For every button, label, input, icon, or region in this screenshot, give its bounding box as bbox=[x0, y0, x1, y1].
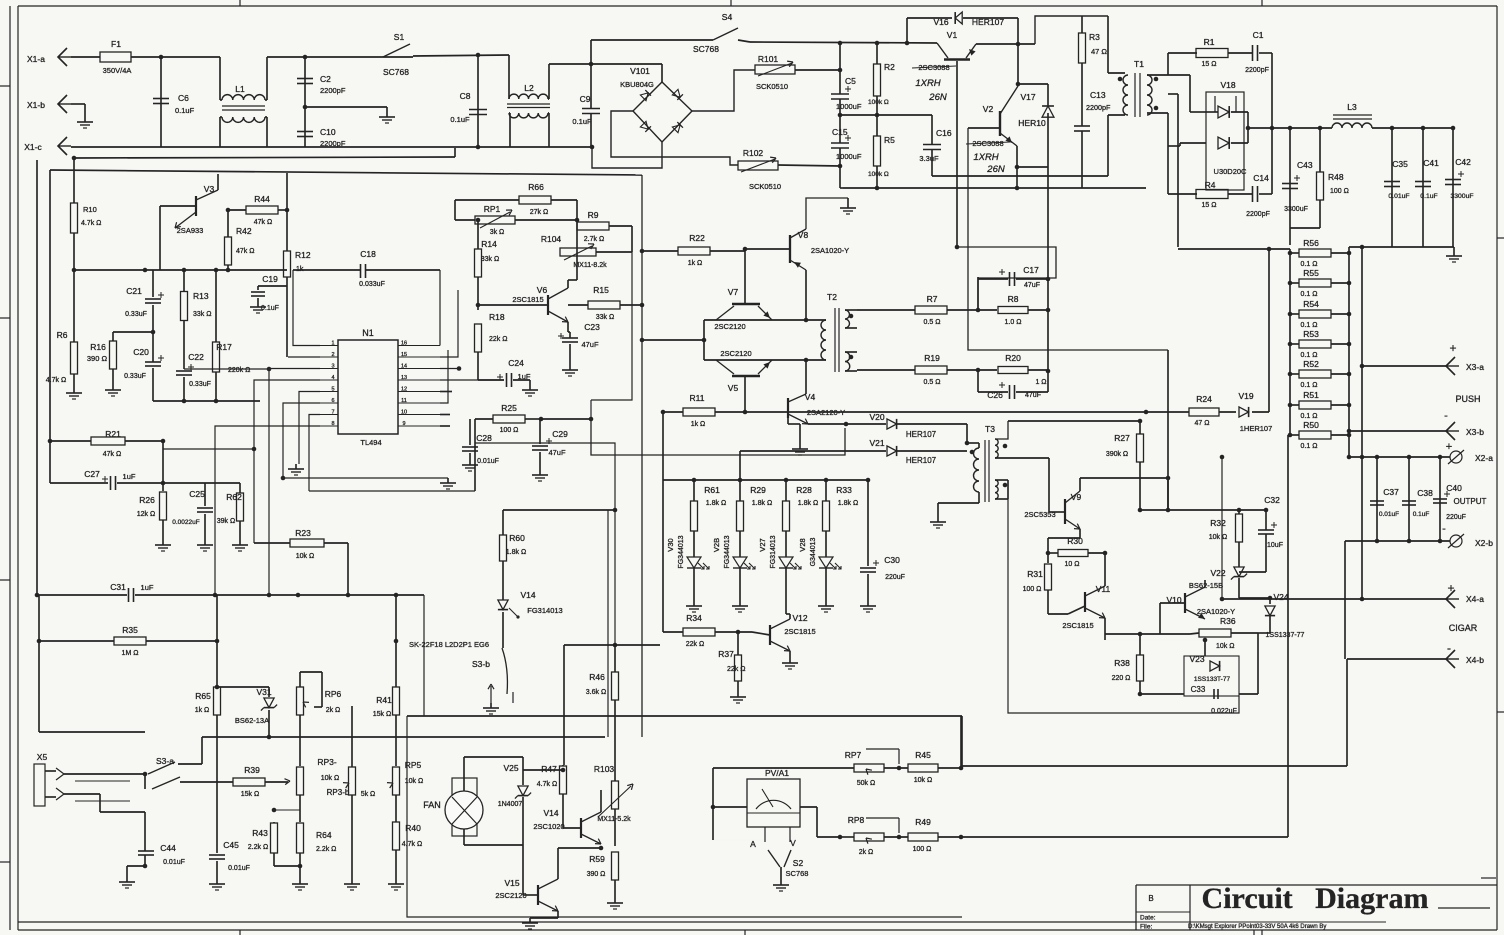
svg-text:C22: C22 bbox=[188, 352, 204, 362]
svg-text:V7: V7 bbox=[728, 287, 739, 297]
svg-text:7: 7 bbox=[331, 410, 334, 416]
svg-text:12: 12 bbox=[401, 387, 407, 393]
svg-text:D:\KMsgt Explorer PPoint03-33V: D:\KMsgt Explorer PPoint03-33V 50A 4k6 D… bbox=[1188, 924, 1326, 930]
svg-text:C24: C24 bbox=[508, 358, 524, 368]
svg-text:+: + bbox=[1446, 441, 1452, 453]
svg-text:2200pF: 2200pF bbox=[1086, 103, 1111, 112]
svg-text:1.8k Ω: 1.8k Ω bbox=[706, 500, 726, 507]
svg-text:V14: V14 bbox=[543, 808, 558, 818]
svg-text:2SC5353: 2SC5353 bbox=[1024, 510, 1055, 519]
svg-text:A: A bbox=[750, 839, 756, 849]
svg-text:V24: V24 bbox=[1273, 592, 1288, 602]
svg-text:C21: C21 bbox=[126, 286, 142, 296]
svg-text:10k Ω: 10k Ω bbox=[296, 553, 314, 560]
svg-text:R46: R46 bbox=[589, 672, 605, 682]
svg-text:0.01uF: 0.01uF bbox=[228, 865, 250, 872]
svg-text:220k Ω: 220k Ω bbox=[228, 367, 250, 374]
svg-text:47k Ω: 47k Ω bbox=[254, 219, 272, 226]
svg-text:OUTPUT: OUTPUT bbox=[1454, 497, 1487, 506]
svg-text:R16: R16 bbox=[90, 342, 106, 352]
svg-text:220uF: 220uF bbox=[1446, 514, 1466, 521]
svg-text:PUSH: PUSH bbox=[1455, 394, 1480, 404]
svg-text:47 Ω: 47 Ω bbox=[1091, 47, 1107, 56]
svg-text:R10: R10 bbox=[83, 205, 97, 214]
svg-text:2SA933: 2SA933 bbox=[177, 226, 204, 235]
svg-text:1 Ω: 1 Ω bbox=[1035, 379, 1046, 386]
svg-text:0.01uF: 0.01uF bbox=[477, 458, 499, 465]
svg-text:1XRH: 1XRH bbox=[973, 152, 998, 163]
svg-text:4.7k Ω: 4.7k Ω bbox=[537, 781, 557, 788]
svg-text:R25: R25 bbox=[501, 403, 517, 413]
svg-text:15: 15 bbox=[401, 352, 407, 358]
svg-text:V101: V101 bbox=[630, 66, 650, 76]
svg-text:RP3-: RP3- bbox=[317, 757, 337, 767]
svg-text:C23: C23 bbox=[584, 322, 600, 332]
svg-text:3k Ω: 3k Ω bbox=[490, 229, 505, 236]
svg-text:22k Ω: 22k Ω bbox=[489, 336, 507, 343]
svg-text:V23: V23 bbox=[1189, 654, 1204, 664]
svg-text:1.8k Ω: 1.8k Ω bbox=[752, 500, 772, 507]
svg-text:16: 16 bbox=[401, 341, 407, 347]
svg-text:R51: R51 bbox=[1303, 390, 1319, 400]
svg-text:47uF: 47uF bbox=[581, 340, 599, 349]
svg-text:1SS1337-77: 1SS1337-77 bbox=[1266, 632, 1305, 639]
svg-text:R61: R61 bbox=[704, 485, 720, 495]
svg-text:F1: F1 bbox=[111, 39, 121, 49]
svg-text:R28: R28 bbox=[796, 485, 812, 495]
svg-text:FG344013: FG344013 bbox=[724, 535, 731, 568]
svg-text:BS62-15B: BS62-15B bbox=[1189, 581, 1223, 590]
svg-text:3.3uF: 3.3uF bbox=[919, 154, 939, 163]
svg-text:27k Ω: 27k Ω bbox=[530, 209, 548, 216]
svg-text:1.8k Ω: 1.8k Ω bbox=[798, 500, 818, 507]
svg-text:R26: R26 bbox=[139, 495, 155, 505]
svg-text:V27: V27 bbox=[758, 538, 767, 551]
svg-text:R22: R22 bbox=[689, 233, 705, 243]
svg-text:0.01uF: 0.01uF bbox=[1388, 193, 1409, 200]
svg-text:220uF: 220uF bbox=[885, 574, 905, 581]
svg-text:C30: C30 bbox=[884, 555, 900, 565]
svg-text:L1: L1 bbox=[235, 84, 245, 94]
svg-text:R56: R56 bbox=[1303, 238, 1319, 248]
svg-text:R104: R104 bbox=[541, 234, 562, 244]
svg-text:5: 5 bbox=[331, 387, 334, 393]
svg-text:R19: R19 bbox=[924, 353, 940, 363]
svg-text:X4-a: X4-a bbox=[1466, 594, 1484, 604]
svg-text:-: - bbox=[1442, 523, 1446, 535]
svg-text:-: - bbox=[1444, 410, 1448, 422]
svg-text:2200pF: 2200pF bbox=[320, 86, 346, 95]
svg-text:R33: R33 bbox=[836, 485, 852, 495]
svg-text:2200pF: 2200pF bbox=[1245, 67, 1269, 74]
svg-text:R65: R65 bbox=[195, 691, 211, 701]
svg-text:S4: S4 bbox=[722, 12, 733, 22]
svg-text:T2: T2 bbox=[827, 292, 837, 302]
svg-text:SC768: SC768 bbox=[383, 67, 409, 77]
svg-text:C8: C8 bbox=[460, 91, 471, 101]
svg-text:4.7k Ω: 4.7k Ω bbox=[46, 377, 66, 384]
svg-text:+: + bbox=[1449, 341, 1456, 355]
svg-text:SC768: SC768 bbox=[693, 44, 719, 54]
svg-text:R41: R41 bbox=[376, 695, 392, 705]
svg-text:R103: R103 bbox=[594, 764, 615, 774]
svg-text:R47: R47 bbox=[541, 764, 557, 774]
svg-text:C43: C43 bbox=[1297, 160, 1313, 170]
svg-text:10k Ω: 10k Ω bbox=[321, 775, 339, 782]
svg-text:33k Ω: 33k Ω bbox=[481, 256, 499, 263]
svg-text:10: 10 bbox=[401, 410, 407, 416]
svg-text:RP6: RP6 bbox=[325, 689, 342, 699]
svg-text:100k Ω: 100k Ω bbox=[868, 99, 889, 106]
svg-text:0.1 Ω: 0.1 Ω bbox=[1301, 291, 1318, 298]
svg-text:L3: L3 bbox=[1347, 102, 1357, 112]
svg-text:0.1uF: 0.1uF bbox=[450, 115, 470, 124]
svg-text:V28: V28 bbox=[798, 538, 807, 551]
svg-text:15 Ω: 15 Ω bbox=[1202, 202, 1217, 209]
svg-text:0.1 Ω: 0.1 Ω bbox=[1301, 443, 1318, 450]
svg-text:47uF: 47uF bbox=[548, 448, 566, 457]
svg-text:15 Ω: 15 Ω bbox=[1202, 61, 1217, 68]
svg-text:V17: V17 bbox=[1020, 92, 1035, 102]
svg-text:R17: R17 bbox=[216, 342, 232, 352]
svg-text:0.33uF: 0.33uF bbox=[189, 381, 211, 388]
svg-text:2SC1020: 2SC1020 bbox=[533, 822, 564, 831]
svg-text:R66: R66 bbox=[528, 182, 544, 192]
svg-text:100 Ω: 100 Ω bbox=[1023, 586, 1042, 593]
svg-text:47uF: 47uF bbox=[1025, 392, 1041, 399]
svg-text:0.33uF: 0.33uF bbox=[125, 311, 147, 318]
svg-text:1k Ω: 1k Ω bbox=[691, 421, 706, 428]
svg-text:V8: V8 bbox=[798, 230, 809, 240]
svg-text:C1: C1 bbox=[1253, 30, 1264, 40]
svg-text:R14: R14 bbox=[481, 239, 497, 249]
svg-text:V18: V18 bbox=[1220, 80, 1235, 90]
svg-text:R45: R45 bbox=[915, 750, 931, 760]
svg-text:V15: V15 bbox=[504, 878, 519, 888]
svg-text:0.1uF: 0.1uF bbox=[572, 117, 592, 126]
svg-text:HER107: HER107 bbox=[906, 456, 937, 465]
svg-text:R27: R27 bbox=[1114, 433, 1130, 443]
svg-text:SCK0510: SCK0510 bbox=[756, 82, 788, 91]
svg-text:R36: R36 bbox=[1220, 616, 1236, 626]
svg-text:V20: V20 bbox=[869, 412, 884, 422]
svg-text:R38: R38 bbox=[1114, 658, 1130, 668]
svg-text:C40: C40 bbox=[1446, 483, 1462, 493]
svg-text:0.5 Ω: 0.5 Ω bbox=[924, 379, 941, 386]
svg-text:R44: R44 bbox=[254, 194, 270, 204]
svg-text:47 Ω: 47 Ω bbox=[1195, 420, 1210, 427]
svg-text:11: 11 bbox=[401, 398, 407, 404]
svg-text:R55: R55 bbox=[1303, 268, 1319, 278]
svg-text:C27: C27 bbox=[84, 469, 100, 479]
svg-text:C31: C31 bbox=[110, 582, 126, 592]
svg-text:C20: C20 bbox=[133, 347, 149, 357]
svg-text:X1-b: X1-b bbox=[27, 100, 45, 110]
svg-text:2SA1020-Y: 2SA1020-Y bbox=[1197, 607, 1235, 616]
svg-text:R15: R15 bbox=[593, 285, 609, 295]
svg-text:V6: V6 bbox=[537, 285, 548, 295]
svg-text:C42: C42 bbox=[1455, 157, 1471, 167]
svg-text:R7: R7 bbox=[927, 294, 938, 304]
svg-text:R101: R101 bbox=[758, 54, 779, 64]
svg-text:X1-c: X1-c bbox=[24, 142, 42, 152]
svg-text:MX11-8.2k: MX11-8.2k bbox=[573, 262, 607, 269]
svg-text:1.0 Ω: 1.0 Ω bbox=[1005, 319, 1022, 326]
svg-text:C35: C35 bbox=[1392, 159, 1408, 169]
svg-text:RP3-b: RP3-b bbox=[327, 788, 350, 797]
svg-text:C38: C38 bbox=[1417, 488, 1433, 498]
svg-text:S2: S2 bbox=[793, 858, 804, 868]
svg-text:C2: C2 bbox=[320, 74, 331, 84]
svg-text:V2: V2 bbox=[983, 104, 994, 114]
svg-text:0.022uF: 0.022uF bbox=[1211, 708, 1237, 715]
svg-text:R5: R5 bbox=[884, 135, 895, 145]
svg-text:S3-a: S3-a bbox=[156, 756, 174, 766]
svg-text:1N4007: 1N4007 bbox=[498, 801, 523, 808]
svg-text:0.033uF: 0.033uF bbox=[359, 281, 385, 288]
svg-text:C6: C6 bbox=[178, 93, 189, 103]
svg-text:C5: C5 bbox=[845, 76, 856, 86]
svg-text:33k Ω: 33k Ω bbox=[193, 311, 211, 318]
svg-text:S1: S1 bbox=[394, 32, 405, 42]
svg-text:V21: V21 bbox=[869, 438, 884, 448]
svg-text:C25: C25 bbox=[189, 489, 205, 499]
svg-text:26N: 26N bbox=[928, 92, 947, 103]
svg-text:HER10: HER10 bbox=[1018, 118, 1046, 128]
svg-text:390k Ω: 390k Ω bbox=[1106, 451, 1128, 458]
svg-text:0.1uF: 0.1uF bbox=[175, 106, 195, 115]
svg-text:FG314013: FG314013 bbox=[770, 535, 777, 568]
svg-text:R43: R43 bbox=[252, 828, 268, 838]
svg-text:C14: C14 bbox=[1253, 173, 1269, 183]
svg-text:1uF: 1uF bbox=[141, 583, 154, 592]
svg-text:0.33uF: 0.33uF bbox=[124, 373, 146, 380]
svg-text:R60: R60 bbox=[509, 533, 525, 543]
svg-text:1M Ω: 1M Ω bbox=[122, 650, 139, 657]
svg-text:1SS133T-77: 1SS133T-77 bbox=[1194, 676, 1231, 683]
svg-text:R52: R52 bbox=[1303, 359, 1319, 369]
svg-text:Date:: Date: bbox=[1140, 915, 1156, 922]
svg-text:0.1 Ω: 0.1 Ω bbox=[1301, 382, 1318, 389]
svg-text:V22: V22 bbox=[1210, 568, 1225, 578]
svg-text:B: B bbox=[1148, 894, 1153, 903]
svg-text:6: 6 bbox=[331, 398, 334, 404]
svg-text:2SA1020-Y: 2SA1020-Y bbox=[811, 246, 849, 255]
svg-text:G344013: G344013 bbox=[810, 537, 817, 566]
svg-text:22k Ω: 22k Ω bbox=[727, 666, 745, 673]
svg-text:0.1 Ω: 0.1 Ω bbox=[1301, 261, 1318, 268]
svg-text:R9: R9 bbox=[588, 210, 599, 220]
svg-text:X1-a: X1-a bbox=[27, 54, 45, 64]
svg-text:X3-b: X3-b bbox=[1466, 427, 1484, 437]
svg-text:FG344013: FG344013 bbox=[678, 535, 685, 568]
svg-text:1.8k Ω: 1.8k Ω bbox=[838, 500, 858, 507]
svg-text:1: 1 bbox=[331, 341, 334, 347]
svg-text:2k Ω: 2k Ω bbox=[326, 707, 341, 714]
svg-text:2.2k Ω: 2.2k Ω bbox=[248, 844, 268, 851]
svg-text:R54: R54 bbox=[1303, 299, 1319, 309]
svg-text:V1: V1 bbox=[947, 30, 958, 40]
svg-text:1k Ω: 1k Ω bbox=[195, 707, 210, 714]
svg-text:4.7k Ω: 4.7k Ω bbox=[81, 220, 101, 227]
svg-text:R6: R6 bbox=[57, 330, 68, 340]
svg-text:100 Ω: 100 Ω bbox=[500, 427, 519, 434]
svg-text:R20: R20 bbox=[1005, 353, 1021, 363]
svg-text:X4-b: X4-b bbox=[1466, 655, 1484, 665]
svg-text:26N: 26N bbox=[986, 164, 1005, 175]
svg-text:0.1uF: 0.1uF bbox=[261, 305, 279, 312]
svg-text:10k Ω: 10k Ω bbox=[914, 777, 932, 784]
svg-text:1.8k Ω: 1.8k Ω bbox=[506, 549, 526, 556]
svg-text:2: 2 bbox=[331, 352, 334, 358]
svg-text:V12: V12 bbox=[792, 613, 807, 623]
svg-text:RP7: RP7 bbox=[845, 750, 862, 760]
svg-text:10uF: 10uF bbox=[1267, 542, 1283, 549]
svg-text:1HER107: 1HER107 bbox=[1240, 424, 1273, 433]
svg-text:5k Ω: 5k Ω bbox=[361, 791, 376, 798]
svg-text:R3: R3 bbox=[1089, 32, 1100, 42]
svg-text:1uF: 1uF bbox=[123, 472, 136, 481]
svg-text:BS62-13A: BS62-13A bbox=[235, 716, 269, 725]
svg-text:47k Ω: 47k Ω bbox=[236, 248, 254, 255]
svg-text:0.1uF: 0.1uF bbox=[1413, 511, 1430, 518]
svg-text:R50: R50 bbox=[1303, 420, 1319, 430]
svg-text:R64: R64 bbox=[316, 830, 332, 840]
svg-text:2SC1815: 2SC1815 bbox=[1062, 621, 1093, 630]
svg-text:R30: R30 bbox=[1067, 536, 1083, 546]
svg-text:CIGAR: CIGAR bbox=[1449, 623, 1478, 633]
svg-text:-: - bbox=[1447, 641, 1451, 655]
svg-text:15k Ω: 15k Ω bbox=[373, 711, 391, 718]
svg-text:S3-b: S3-b bbox=[472, 659, 490, 669]
svg-text:R42: R42 bbox=[236, 226, 252, 236]
svg-text:V2B: V2B bbox=[712, 538, 721, 552]
svg-text:R48: R48 bbox=[1328, 172, 1344, 182]
svg-text:R34: R34 bbox=[686, 613, 702, 623]
svg-text:C28: C28 bbox=[476, 433, 492, 443]
svg-text:8: 8 bbox=[331, 421, 334, 427]
svg-text:R102: R102 bbox=[743, 148, 764, 158]
svg-text:V5: V5 bbox=[728, 383, 739, 393]
svg-text:C29: C29 bbox=[552, 429, 568, 439]
svg-text:RP1: RP1 bbox=[484, 204, 501, 214]
svg-text:C41: C41 bbox=[1423, 158, 1439, 168]
svg-text:R2: R2 bbox=[884, 62, 895, 72]
svg-text:0.01uF: 0.01uF bbox=[1379, 511, 1399, 518]
svg-text:T3: T3 bbox=[985, 424, 995, 434]
svg-text:C9: C9 bbox=[580, 94, 591, 104]
svg-text:2SC2120: 2SC2120 bbox=[720, 349, 751, 358]
svg-text:L2: L2 bbox=[524, 83, 534, 93]
svg-text:2k Ω: 2k Ω bbox=[859, 849, 874, 856]
svg-text:KBU804G: KBU804G bbox=[620, 80, 654, 89]
svg-text:R1: R1 bbox=[1204, 37, 1215, 47]
svg-text:TL494: TL494 bbox=[360, 438, 381, 447]
svg-text:47k Ω: 47k Ω bbox=[103, 451, 121, 458]
svg-text:4.7k Ω: 4.7k Ω bbox=[402, 841, 422, 848]
svg-text:4: 4 bbox=[331, 375, 334, 381]
svg-text:C44: C44 bbox=[160, 843, 176, 853]
svg-text:0.1 Ω: 0.1 Ω bbox=[1301, 352, 1318, 359]
svg-text:R37: R37 bbox=[718, 649, 734, 659]
svg-text:0.1 Ω: 0.1 Ω bbox=[1301, 322, 1318, 329]
svg-text:47uF: 47uF bbox=[1024, 282, 1040, 289]
svg-text:0.1 Ω: 0.1 Ω bbox=[1301, 413, 1318, 420]
svg-text:100 Ω: 100 Ω bbox=[1330, 188, 1349, 195]
svg-text:2.2k Ω: 2.2k Ω bbox=[316, 846, 336, 853]
svg-text:U30D20C: U30D20C bbox=[1214, 167, 1248, 176]
svg-text:9: 9 bbox=[402, 421, 405, 427]
svg-text:R31: R31 bbox=[1027, 569, 1043, 579]
svg-text:15k Ω: 15k Ω bbox=[241, 791, 259, 798]
svg-text:V19: V19 bbox=[1238, 391, 1253, 401]
svg-text:12k Ω: 12k Ω bbox=[137, 511, 155, 518]
svg-text:FAN: FAN bbox=[423, 800, 441, 810]
svg-text:V14: V14 bbox=[520, 590, 535, 600]
svg-text:C16: C16 bbox=[936, 128, 952, 138]
svg-text:14: 14 bbox=[401, 364, 407, 370]
svg-text:2SC1815: 2SC1815 bbox=[784, 627, 815, 636]
svg-text:0.5 Ω: 0.5 Ω bbox=[924, 319, 941, 326]
svg-text:10 Ω: 10 Ω bbox=[1065, 561, 1080, 568]
svg-text:X5: X5 bbox=[37, 752, 48, 762]
svg-text:C10: C10 bbox=[320, 127, 336, 137]
svg-text:R11: R11 bbox=[690, 393, 705, 403]
svg-text:N1: N1 bbox=[362, 328, 374, 338]
svg-text:0.1uF: 0.1uF bbox=[1420, 193, 1437, 200]
svg-text:HER107: HER107 bbox=[906, 430, 937, 439]
svg-text:R18: R18 bbox=[489, 312, 505, 322]
svg-text:390 Ω: 390 Ω bbox=[87, 354, 108, 363]
svg-text:SK-22F18 L2D2P1 EG6: SK-22F18 L2D2P1 EG6 bbox=[409, 640, 489, 649]
svg-text:22k Ω: 22k Ω bbox=[686, 641, 704, 648]
svg-text:C37: C37 bbox=[1383, 487, 1399, 497]
svg-text:39k Ω: 39k Ω bbox=[217, 518, 235, 525]
svg-text:V: V bbox=[790, 838, 796, 848]
svg-text:10k Ω: 10k Ω bbox=[1209, 534, 1227, 541]
svg-text:390 Ω: 390 Ω bbox=[587, 871, 606, 878]
svg-text:V25: V25 bbox=[503, 763, 518, 773]
svg-text:3: 3 bbox=[331, 364, 334, 370]
svg-text:R49: R49 bbox=[915, 817, 931, 827]
svg-text:C33: C33 bbox=[1191, 685, 1206, 694]
svg-text:PV/A1: PV/A1 bbox=[765, 768, 789, 778]
svg-text:C13: C13 bbox=[1090, 90, 1106, 100]
svg-text:C18: C18 bbox=[360, 249, 376, 259]
svg-text:RP8: RP8 bbox=[848, 815, 865, 825]
svg-text:3.6k Ω: 3.6k Ω bbox=[586, 689, 606, 696]
svg-text:Circuit Diagram: Circuit Diagram bbox=[1202, 882, 1429, 915]
svg-text:R24: R24 bbox=[1196, 394, 1212, 404]
svg-text:C17: C17 bbox=[1023, 265, 1039, 275]
svg-text:220 Ω: 220 Ω bbox=[1112, 675, 1131, 682]
svg-text:100k Ω: 100k Ω bbox=[868, 171, 889, 178]
svg-text:2SC2120: 2SC2120 bbox=[714, 322, 745, 331]
svg-text:10k Ω: 10k Ω bbox=[1216, 643, 1234, 650]
svg-text:T1: T1 bbox=[1134, 59, 1144, 69]
svg-text:FG314013: FG314013 bbox=[527, 606, 562, 615]
svg-text:1k Ω: 1k Ω bbox=[688, 260, 703, 267]
svg-text:33k Ω: 33k Ω bbox=[596, 314, 614, 321]
svg-text:3300uF: 3300uF bbox=[1284, 206, 1308, 213]
svg-text:X2-b: X2-b bbox=[1475, 538, 1493, 548]
svg-text:100 Ω: 100 Ω bbox=[913, 846, 932, 853]
svg-text:2200pF: 2200pF bbox=[1246, 211, 1270, 218]
svg-text:R12: R12 bbox=[295, 250, 311, 260]
svg-text:0.01uF: 0.01uF bbox=[163, 859, 185, 866]
svg-text:X3-a: X3-a bbox=[1466, 362, 1484, 372]
svg-text:13: 13 bbox=[401, 375, 407, 381]
